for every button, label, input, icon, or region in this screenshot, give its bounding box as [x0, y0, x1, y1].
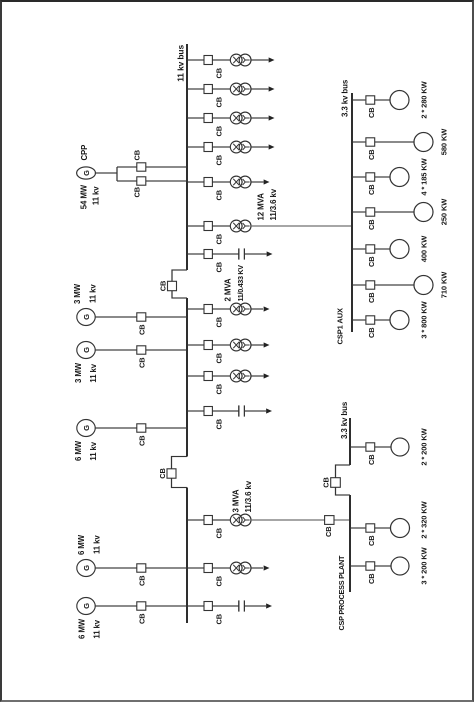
- wire: G3 generator lead to bus: [95, 349, 187, 351]
- wire: feeder M174 drop: [350, 527, 365, 529]
- wire: F14 CB to capacitor: [213, 605, 239, 607]
- wire: F5 CB to transformer: [213, 181, 231, 183]
- label: 54 MW 11 kv: [80, 184, 101, 209]
- transformer T F3 (two-winding, delta/wye): [230, 112, 251, 124]
- motor load M136 (3 * 200 KW): [391, 557, 409, 575]
- wire: F6 CB to transformer: [213, 225, 231, 227]
- wire: F4 CB to transformer: [213, 146, 231, 148]
- load arrow F3: [269, 115, 275, 120]
- wire: F10 transformer to load arrow: [251, 375, 264, 377]
- wire: F13 CB to transformer: [213, 567, 231, 569]
- generator G6 (6 MW 11 kv): [77, 598, 95, 615]
- circuit breaker CB (F6 12MVA): [204, 222, 224, 245]
- capacitor bank F7: [239, 248, 245, 259]
- motor load M560 (580 KW): [414, 133, 433, 152]
- wire: F8 transformer to load arrow: [251, 308, 263, 310]
- wire: CPP breaker leg A: [117, 180, 187, 182]
- motor load M490 (250 KW): [414, 203, 433, 222]
- wire: M560 CB to motor: [375, 141, 414, 143]
- circuit breaker CB (M417): [366, 281, 376, 303]
- wire: F4 transformer to load arrow: [251, 146, 269, 148]
- bus: 3.3 kv bus (CSP1 AUX): [351, 93, 353, 332]
- motor load M174 (2 * 320 KW): [391, 519, 410, 538]
- capacitor bank F14: [239, 600, 245, 611]
- bus: 3.3 kv bus (CSP process plant, section B): [349, 495, 351, 592]
- circuit breaker CB (M525): [366, 173, 376, 195]
- wire: F13 transformer to load arrow: [251, 567, 263, 569]
- wire: F12 CB to transformer: [213, 519, 231, 521]
- wire: F1 transformer to load arrow: [251, 59, 269, 61]
- wire: feeder F4 drop from bus: [187, 146, 204, 148]
- load arrow F11: [266, 408, 272, 413]
- circuit breaker CB (F12 3MVA): [204, 516, 224, 539]
- circuit breaker CB (G2 gen): [137, 313, 147, 335]
- wire: M525 CB to motor: [375, 176, 390, 178]
- wire: feeder M255 drop: [350, 446, 365, 448]
- circuit breaker CB (M136): [366, 562, 376, 584]
- wire: feeder F11 drop from bus: [187, 410, 204, 412]
- circuit breaker CB (F13): [204, 564, 224, 587]
- wire: feeder F5 drop from bus: [187, 181, 204, 183]
- wire: feeder F7 drop from bus: [187, 253, 204, 255]
- wire: 3 MVA transformer to CSP process plant bus: [251, 519, 350, 521]
- bus: 3.3 kv bus (CSP process plant, section A): [349, 418, 351, 465]
- bus section 3: 11 kv: [186, 488, 188, 624]
- wire: feeder M382 drop: [352, 319, 365, 321]
- wire: feeder M560 drop: [352, 141, 365, 143]
- wire: feeder M453 drop: [352, 248, 365, 250]
- motor load M382 (3 * 800 KW): [390, 311, 409, 330]
- wire: F5 transformer to load arrow: [251, 181, 264, 183]
- wire: F2 transformer to load arrow: [251, 88, 269, 90]
- wire: F14 capacitor to load arrow: [244, 605, 266, 607]
- circuit breaker CB (M255): [366, 443, 376, 465]
- label: M417 rating 710 KW: [440, 271, 449, 299]
- load arrow F9: [264, 342, 270, 347]
- wire: F8 CB to transformer: [213, 308, 231, 310]
- load arrow F8: [264, 306, 270, 311]
- circuit breaker CB (F14): [204, 602, 224, 625]
- wire: feeder F10 drop from bus: [187, 375, 204, 377]
- generator G1 CPP (54 MW 11 kv): [77, 167, 96, 179]
- label: 2 MVA 11/0.433 KV: [224, 265, 246, 302]
- wire: feeder F8 (2 MVA) drop from bus: [187, 308, 204, 310]
- circuit breaker CB (F8 2MVA): [204, 305, 224, 328]
- transformer T8 2 MVA 11/0.433 KV (two-winding, delta/wye): [230, 303, 251, 315]
- circuit breaker CB (3 MVA line): [324, 516, 334, 537]
- label: 3 MVA 11/3.6 kv: [232, 480, 254, 512]
- circuit breaker CB (M490): [366, 208, 376, 230]
- label: M490 rating 250 KW: [440, 198, 449, 226]
- wire: feeder M525 drop: [352, 176, 365, 178]
- label: CSP PROCESS PLANT: [337, 555, 346, 630]
- circuit breaker CB (G5 gen): [137, 564, 147, 586]
- wire: F9 CB to transformer: [213, 344, 231, 346]
- circuit breaker CB (F11): [204, 407, 224, 430]
- wire: M602 CB to motor: [375, 99, 390, 101]
- wire: F11 capacitor to load arrow: [244, 410, 266, 412]
- circuit breaker CB (G3 gen): [137, 346, 147, 368]
- wire: feeder F13 drop from bus: [187, 567, 204, 569]
- wire: F2 CB to transformer: [213, 88, 231, 90]
- circuit breaker CB (F7): [204, 250, 224, 273]
- wire: CSP plant bus tie jog: [336, 465, 351, 495]
- wire: feeder F2 drop from bus: [187, 88, 204, 90]
- bus section 1: 11 kv bus: [186, 44, 188, 270]
- wire: feeder F9 drop from bus: [187, 344, 204, 346]
- label: G4 rating: [74, 440, 98, 461]
- wire: F1 CB to transformer: [213, 59, 231, 61]
- label: 12 MVA 11/3.6 kv: [257, 188, 279, 220]
- label: 11 kv bus: [176, 45, 186, 82]
- circuit breaker CB (CPP leg A): [133, 177, 146, 198]
- wire: feeder F3 drop from bus: [187, 117, 204, 119]
- transformer T F2 (two-winding, delta/wye): [230, 83, 251, 95]
- load arrow F4: [269, 144, 275, 149]
- motor load M525 (4 * 185 KW): [390, 168, 409, 187]
- transformer T F10 (two-winding, delta/wye): [230, 370, 251, 382]
- wire: bus tie 2 jog: [172, 457, 188, 488]
- circuit breaker CB (M560): [366, 138, 376, 160]
- transformer T13 (two-winding, delta/wye): [230, 562, 251, 574]
- transformer T F5 (two-winding, delta/wye): [230, 176, 251, 188]
- circuit breaker CB (bus tie 1): [159, 281, 177, 291]
- load arrow F13: [264, 565, 270, 570]
- wire: CPP breaker leg B: [117, 166, 187, 168]
- label: M602 rating 2 * 280 KW: [420, 80, 429, 118]
- circuit breaker CB (M453): [366, 245, 376, 267]
- circuit breaker CB (bus tie 2): [158, 468, 176, 478]
- transformer T6 12 MVA 11/3.6 kv (two-winding, delta/wye): [230, 220, 251, 232]
- generator G3 (3 MW 11 kv): [77, 342, 95, 359]
- wire: F7 capacitor to load arrow: [244, 253, 266, 255]
- label: M560 rating 580 KW: [440, 128, 449, 156]
- label: M136 rating 3 * 200 KW: [420, 546, 429, 584]
- circuit breaker CB (F3): [204, 114, 224, 137]
- load arrow F7: [267, 251, 273, 256]
- wire: G5 generator lead to bus: [95, 567, 187, 569]
- load arrow F1: [269, 57, 275, 62]
- label: 3.3 kv bus (CSP1 AUX): [341, 79, 350, 117]
- transformer T F1 (two-winding, delta/wye): [230, 54, 251, 66]
- circuit breaker CB (F5): [204, 178, 224, 201]
- wire: G6 generator lead to bus: [95, 605, 187, 607]
- wire: M174 CB to motor: [375, 527, 391, 529]
- wire: F3 transformer to load arrow: [251, 117, 269, 119]
- transformer T F4 (two-winding, delta/wye): [230, 141, 251, 153]
- label: G5 rating: [77, 534, 102, 555]
- circuit breaker CB (G4 gen): [137, 424, 147, 446]
- wire: feeder M417 drop: [352, 284, 365, 286]
- wire: M417 CB to motor: [375, 284, 414, 286]
- circuit breaker CB (CSP plant bus tie): [322, 477, 341, 487]
- motor load M255 (2 * 200 KW): [391, 438, 409, 456]
- wire: F9 transformer to load arrow: [251, 344, 264, 346]
- wire: F10 CB to transformer: [213, 375, 231, 377]
- wire: bus tie 1 jog: [172, 270, 187, 298]
- circuit breaker CB (F4): [204, 143, 224, 166]
- wire: F11 CB to capacitor: [213, 410, 239, 412]
- load arrow F10: [264, 373, 270, 378]
- label: M525 rating 4 * 185 KW: [420, 157, 429, 195]
- wire: CPP stem: [95, 167, 117, 181]
- label: M255 rating 2 * 200 KW: [420, 427, 429, 465]
- load arrow F5: [264, 179, 270, 184]
- wire: feeder F1 drop from bus: [187, 59, 204, 61]
- circuit breaker CB (F10): [204, 372, 224, 395]
- circuit breaker CB (M602): [366, 96, 376, 118]
- load arrow F2: [269, 86, 275, 91]
- generator G2 (3 MW 11 kv): [77, 309, 95, 326]
- wire: F3 CB to transformer: [213, 117, 231, 119]
- label: M174 rating 2 * 320 KW: [420, 500, 429, 538]
- label: M453 rating 400 KW: [420, 235, 429, 263]
- circuit breaker CB (F1): [204, 56, 224, 79]
- circuit breaker CB (CPP leg B): [133, 150, 146, 171]
- wire: feeder M490 drop: [352, 211, 365, 213]
- circuit breaker CB (F9): [204, 341, 224, 364]
- wire: M255 CB to motor: [375, 446, 391, 448]
- wire: feeder F6 (12 MVA) drop from bus: [187, 225, 204, 227]
- label: CPP: [80, 145, 89, 161]
- generator G5 (6 MW 11 kv): [77, 560, 95, 577]
- capacitor bank F11: [239, 405, 245, 416]
- label: M382 rating 3 * 800 KW: [420, 300, 429, 338]
- circuit breaker CB (M174): [366, 524, 376, 546]
- motor load M453 (400 KW): [390, 240, 409, 259]
- motor load M417 (710 KW): [414, 276, 433, 295]
- wire: feeder F12 (3 MVA) drop from bus: [187, 519, 204, 521]
- wire: 12 MVA transformer to 3.3 kv bus (CSP1 AUX): [251, 225, 352, 227]
- wire: feeder M602 drop: [352, 99, 365, 101]
- circuit breaker CB (G6 gen): [137, 602, 147, 624]
- load arrow F14: [266, 603, 272, 608]
- wire: G2 generator lead to bus: [95, 316, 187, 318]
- label: G6 rating: [78, 618, 102, 639]
- label: CSP1 AUX: [336, 308, 345, 345]
- wire: M136 CB to motor: [375, 565, 391, 567]
- wire: F7 CB to capacitor: [213, 253, 239, 255]
- circuit breaker CB (M382): [366, 316, 376, 338]
- wire: G4 generator lead to bus: [95, 427, 187, 429]
- label: G2 rating: [73, 283, 98, 304]
- bus section 2: 11 kv: [186, 298, 188, 457]
- wire: M382 CB to motor: [375, 319, 390, 321]
- motor load M602 (2 * 280 KW): [390, 91, 409, 110]
- wire: feeder F14 drop from bus: [187, 605, 204, 607]
- wire: M453 CB to motor: [375, 248, 390, 250]
- transformer T F9 (two-winding, delta/wye): [230, 339, 251, 351]
- circuit breaker CB (F2): [204, 85, 224, 108]
- label: 3.3 kv bus (CSP process plant): [340, 401, 349, 439]
- label: G3 rating: [74, 362, 98, 383]
- wire: M490 CB to motor: [375, 211, 414, 213]
- wire: feeder M136 drop: [350, 565, 365, 567]
- generator G4 (6 MW 11 kv): [77, 420, 95, 437]
- transformer T12 3 MVA 11/3.6 kv (two-winding, delta/wye): [230, 514, 251, 526]
